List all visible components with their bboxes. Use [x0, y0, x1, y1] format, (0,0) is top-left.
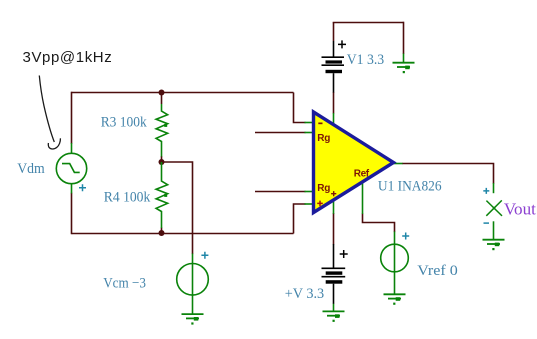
resistor R3 [156, 104, 168, 157]
pin stub minus input [305, 122, 315, 124]
ground (Vout) [483, 240, 505, 244]
wire R3 top lead [161, 93, 163, 105]
svg-text:R4 100k: R4 100k [104, 190, 151, 206]
pin stub plus input [305, 203, 315, 205]
Vref plus mark [402, 233, 409, 240]
wire left vertical lower [71, 193, 73, 235]
green leads / pin stubs [72, 54, 494, 315]
wire left vertical upper [71, 92, 73, 144]
svg-text:Rg: Rg [317, 183, 330, 194]
wire bottom rail [72, 233, 294, 235]
wire opamp V- down [333, 213, 335, 244]
Vout plus mark [483, 188, 489, 194]
wire V+ battery top [333, 22, 335, 41]
node R4 bottom junction [159, 230, 165, 236]
svg-text:Ref: Ref [354, 168, 370, 179]
wire Vref column [394, 232, 396, 295]
wire Rg bottom stub [255, 191, 306, 193]
battery V1 [322, 41, 345, 93]
wire +V ground stub [333, 304, 335, 312]
Vout minus mark [484, 222, 490, 224]
pin label Rg+ subscript plus [331, 191, 336, 196]
pin stub Ref [362, 180, 364, 214]
wire Rg top stub [255, 132, 306, 134]
wire V1 top rail [333, 22, 404, 24]
pin label minus [318, 123, 322, 125]
pin label plus [317, 201, 323, 207]
wire plus-input riser [294, 204, 306, 234]
wire R4 bottom lead [161, 228, 163, 234]
wire V1 ground stub [403, 54, 405, 63]
annotation arrow [39, 76, 60, 150]
wire midpoint to Vcm [162, 162, 193, 254]
svg-text:3Vpp@1kHz: 3Vpp@1kHz [23, 49, 113, 66]
svg-text:R3 100k: R3 100k [101, 115, 147, 131]
wire minus-input riser [294, 93, 306, 123]
pin stub V+ [333, 113, 335, 124]
source Vref [381, 244, 409, 272]
svg-text:Vref 0: Vref 0 [417, 263, 458, 279]
wire Vcm column [192, 254, 194, 315]
V1 plus mark [338, 40, 346, 48]
wire Vout column upper [493, 183, 495, 193]
node R3 top junction [159, 90, 165, 96]
source Vdm [56, 153, 86, 183]
svg-text:U1 INA826: U1 INA826 [378, 179, 442, 195]
svg-text:Rg: Rg [317, 133, 330, 144]
ground (Vcm) [182, 314, 204, 318]
+V plus mark [340, 250, 348, 258]
ground (+V) [323, 311, 345, 315]
node R3/R4 midpoint junction [159, 159, 165, 165]
wire top rail [72, 92, 294, 94]
svg-text:V1 3.3: V1 3.3 [347, 52, 385, 68]
ground (V1) [393, 63, 415, 67]
wire Vdm top lead [71, 143, 73, 154]
op-amp U1 body [314, 112, 394, 213]
junction dots [159, 90, 165, 237]
svg-text:Vdm: Vdm [17, 161, 45, 177]
svg-text:+V 3.3: +V 3.3 [285, 286, 325, 302]
output pin X Vout [486, 200, 502, 216]
wire V1 bottom to opamp [333, 92, 335, 114]
source Vcm [177, 264, 209, 296]
wire Ref to Vref [363, 214, 395, 233]
svg-text:Vcm −3: Vcm −3 [103, 275, 146, 291]
svg-text:Vout: Vout [504, 200, 536, 219]
battery +V [322, 244, 346, 304]
Vdm plus mark [79, 184, 86, 191]
wire V1 to ground [403, 22, 405, 54]
pin stub Rg top [305, 132, 315, 134]
wire Vout column lower [493, 221, 495, 239]
wire output to Vout [402, 164, 494, 184]
pin stub Rg bottom [305, 191, 315, 193]
pin stub output [394, 163, 403, 165]
wire Vdm bottom lead [71, 184, 73, 194]
Vcm plus mark [201, 252, 208, 259]
ground (Vref) [384, 294, 406, 298]
wire R3 bottom lead [161, 156, 163, 162]
wires (dark red) [72, 22, 494, 254]
pin stub V- [333, 199, 335, 214]
resistor R4 [156, 162, 168, 228]
